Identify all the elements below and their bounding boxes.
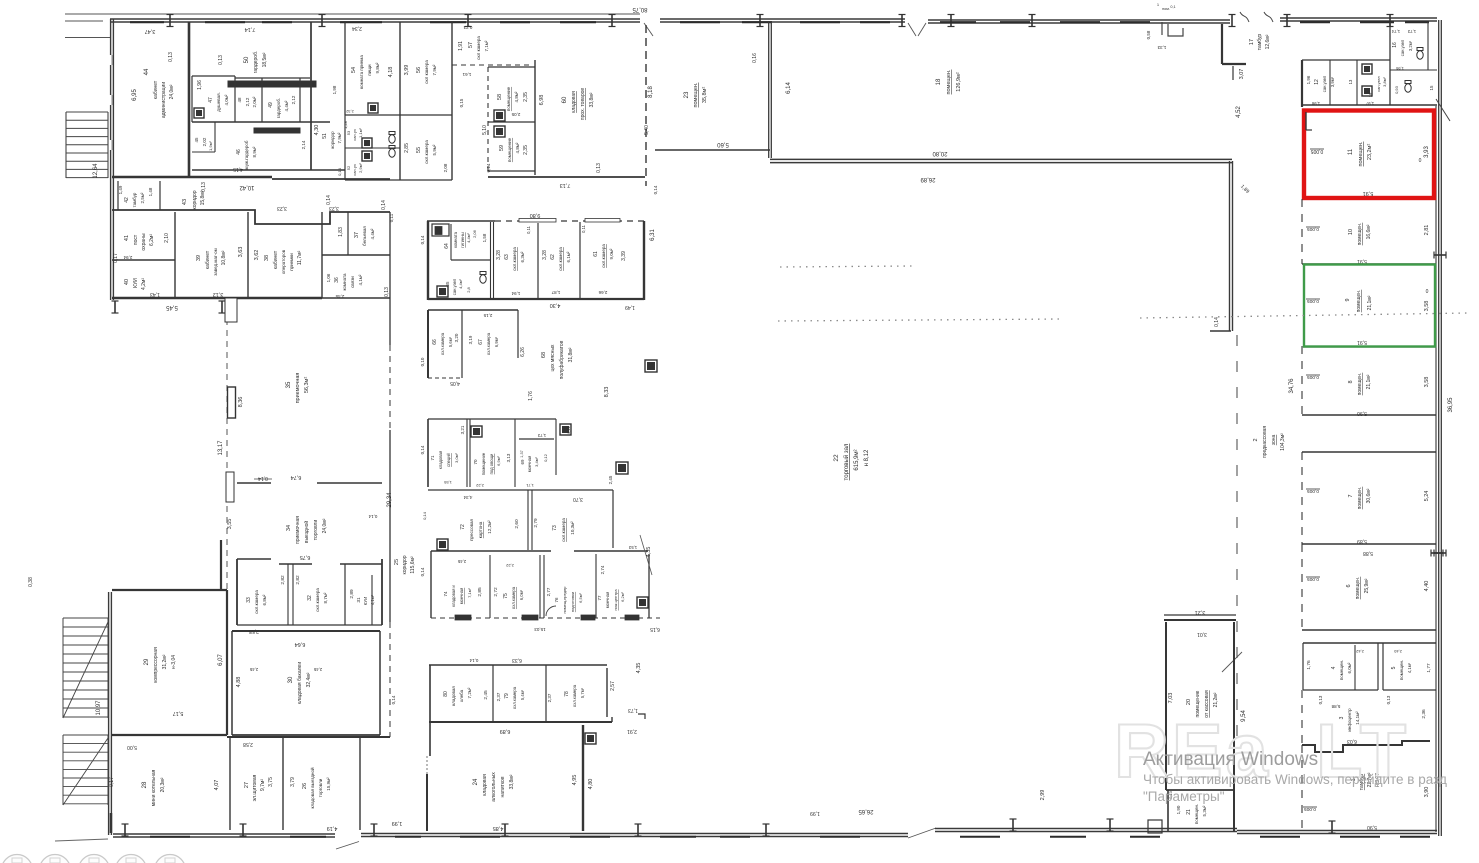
svg-text:5,60: 5,60 [717, 141, 729, 147]
svg-text:0,14: 0,14 [381, 200, 387, 210]
stairs upper-left [65, 112, 67, 178]
svg-text:42: 42 [124, 197, 130, 203]
room 65 san uzel [437, 286, 448, 297]
svg-text:5,00: 5,00 [127, 744, 137, 750]
diagonal leader near room 20 cap [1222, 652, 1242, 672]
svg-text:5,24: 5,24 [1424, 491, 1430, 502]
svg-text:5,9м²: 5,9м² [432, 144, 437, 155]
svg-text:9: 9 [1345, 298, 1351, 301]
corridor 25 west wall [389, 212, 391, 345]
svg-text:4,40: 4,40 [1424, 581, 1430, 592]
svg-text:0,14: 0,14 [420, 445, 425, 454]
svg-text:моечная: моечная [605, 592, 610, 609]
svg-text:34,76: 34,76 [1289, 378, 1295, 394]
svg-text:21,1м²: 21,1м² [1367, 295, 1373, 310]
svg-text:4,4м²: 4,4м² [370, 228, 375, 239]
svg-text:1,83: 1,83 [338, 227, 344, 237]
svg-text:2,36: 2,36 [1421, 709, 1427, 719]
svg-text:6,2м²: 6,2м² [620, 592, 625, 602]
wall corridor 43 north side [112, 176, 272, 178]
svg-text:3,55: 3,55 [227, 519, 233, 530]
svg-text:2,15: 2,15 [483, 313, 492, 318]
room 34 priemochnaja vyezdnoj torgovli [237, 482, 271, 484]
svg-text:1,94: 1,94 [511, 291, 520, 296]
svg-text:картона: картона [478, 521, 483, 538]
svg-text:3,70: 3,70 [573, 496, 583, 502]
svg-text:0,14: 0,14 [1214, 317, 1220, 327]
svg-text:4,18: 4,18 [388, 67, 394, 78]
svg-text:55: 55 [416, 147, 422, 153]
svg-text:6,1м²: 6,1м² [566, 251, 571, 262]
room 47 dushevaja [192, 75, 235, 77]
svg-text:охл.камера: охл.камера [512, 247, 517, 271]
svg-text:охл.камера: охл.камера [511, 586, 516, 609]
svg-text:помещение: помещение [481, 452, 486, 475]
svg-text:17: 17 [1249, 39, 1255, 45]
svg-text:41: 41 [124, 235, 130, 241]
svg-text:12,6м²: 12,6м² [1265, 34, 1271, 49]
svg-text:3,90: 3,90 [1424, 787, 1430, 798]
svg-text:2,45: 2,45 [608, 475, 613, 484]
svg-text:2,91: 2,91 [627, 728, 637, 734]
svg-text:0,13: 0,13 [201, 182, 207, 192]
svg-text:0,13: 0,13 [218, 55, 224, 65]
svg-text:3,47: 3,47 [145, 28, 156, 34]
room 7 [1302, 451, 1436, 453]
svg-text:10,8м²: 10,8м² [221, 250, 227, 265]
svg-text:1,91: 1,91 [458, 41, 464, 51]
svg-text:2,22: 2,22 [505, 563, 514, 568]
svg-text:6,8м²: 6,8м² [262, 594, 267, 605]
svg-text:3,39: 3,39 [621, 251, 627, 261]
svg-text:эл.щитовая: эл.щитовая [252, 774, 258, 801]
wall stub left of rooms 33 row [220, 540, 222, 590]
svg-text:1,98: 1,98 [1311, 101, 1320, 106]
svg-text:36: 36 [334, 277, 340, 283]
svg-text:напитков: напитков [500, 776, 506, 797]
svg-text:помещение: помещение [507, 137, 512, 162]
svg-text:8,7м²: 8,7м² [323, 592, 328, 603]
dimension line 80,75 along top [65, 13, 640, 15]
svg-text:душевая.: душевая. [216, 92, 221, 112]
svg-text:2,10: 2,10 [164, 233, 170, 243]
svg-text:30,6м²: 30,6м² [1366, 488, 1372, 503]
svg-text:комната: комната [342, 273, 347, 291]
svg-text:прох. товаров: прох. товаров [580, 88, 586, 120]
predkassovaja zona dashed boundary [1236, 335, 1238, 745]
room 23 pomeschenie [768, 22, 770, 158]
hatch ticks on top wall [169, 15, 171, 27]
svg-text:1,06: 1,06 [326, 273, 331, 282]
svg-text:0,38: 0,38 [28, 577, 34, 587]
svg-text:1,99: 1,99 [810, 810, 820, 816]
svg-text:4,30: 4,30 [550, 302, 561, 308]
svg-text:10,42: 10,42 [239, 184, 255, 190]
svg-text:1,87: 1,87 [551, 290, 560, 295]
svg-text:бельевая: бельевая [362, 226, 367, 246]
room 49 garderob [299, 78, 301, 122]
svg-text:29: 29 [144, 658, 150, 665]
svg-text:приемочная: приемочная [295, 516, 301, 544]
svg-text:57: 57 [468, 42, 474, 48]
window gaps on left wall [109, 55, 111, 65]
svg-text:5,91: 5,91 [1357, 258, 1367, 264]
room 55 ohl kamera [400, 114, 452, 116]
svg-text:2,5м²: 2,5м² [140, 192, 145, 203]
svg-text:5,45: 5,45 [166, 304, 178, 310]
rooms 4 and 5 [1303, 642, 1436, 644]
svg-text:6,9м²: 6,9м² [494, 336, 499, 347]
svg-text:5,90: 5,90 [1357, 410, 1367, 416]
svg-text:54: 54 [351, 67, 357, 73]
svg-text:75: 75 [503, 593, 509, 599]
svg-text:торговли: торговли [318, 778, 323, 797]
svg-text:1,73: 1,73 [537, 433, 546, 438]
svg-text:9,0м²: 9,0м² [609, 248, 614, 259]
wall bottom outer east run [935, 828, 1237, 830]
svg-text:3,28: 3,28 [496, 250, 502, 260]
svg-text:2,12: 2,12 [291, 95, 296, 104]
wall right outer [1438, 20, 1440, 836]
step diagonals at x908 [908, 828, 936, 838]
svg-text:помещен.: помещен. [1357, 487, 1363, 510]
dashed bottom of 74-77 [431, 617, 660, 619]
svg-text:кладовая: кладовая [571, 91, 577, 113]
svg-text:1,53: 1,53 [628, 545, 637, 550]
svg-text:1,49: 1,49 [625, 304, 635, 310]
svg-text:2,40: 2,40 [1393, 649, 1402, 654]
svg-text:2,8: 2,8 [466, 286, 471, 292]
sanitary cells 52 53 [345, 114, 400, 116]
svg-text:13: 13 [1348, 79, 1353, 84]
rooms 13 14 fixtures [1362, 64, 1372, 74]
svg-text:4,0м²: 4,0м² [224, 94, 229, 105]
svg-text:6,89: 6,89 [500, 728, 511, 734]
svg-text:под овощи: под овощи [489, 453, 494, 474]
svg-text:0,13: 0,13 [384, 287, 390, 297]
svg-text:6,5м²: 6,5м² [578, 593, 583, 603]
room 24 kladovaja alkogolnyh napitkov [429, 721, 612, 723]
svg-text:сан.уз: сан.уз [352, 164, 357, 176]
wall left outer rooms 40-41 [110, 180, 112, 300]
svg-text:6,74: 6,74 [291, 474, 302, 480]
wall left outer of admin block [110, 19, 112, 180]
svg-text:операторов: операторов [281, 249, 286, 274]
svg-text:0,73: 0,73 [463, 25, 472, 30]
svg-text:4: 4 [1331, 666, 1337, 669]
svg-text:тамбур: тамбур [1257, 34, 1263, 51]
svg-text:33: 33 [246, 597, 252, 603]
svg-text:104,3м²: 104,3м² [1280, 433, 1286, 451]
ground leader line bottom-left [55, 839, 108, 841]
svg-text:3,75: 3,75 [268, 777, 274, 787]
svg-text:29,34: 29,34 [387, 492, 393, 508]
svg-text:26,65: 26,65 [858, 808, 874, 814]
svg-text:3,93: 3,93 [1424, 146, 1430, 158]
svg-text:2,32: 2,32 [346, 109, 353, 113]
svg-text:кабинет: кабинет [153, 80, 159, 99]
svg-text:47: 47 [208, 97, 214, 103]
svg-text:8,9м²: 8,9м² [252, 146, 257, 157]
svg-text:63: 63 [504, 254, 510, 260]
svg-text:3,58: 3,58 [1424, 301, 1430, 312]
svg-text:18,5м²: 18,5м² [262, 52, 268, 67]
svg-text:1,71: 1,71 [525, 483, 534, 488]
wall under 47-49 row [192, 121, 330, 123]
svg-text:2,02: 2,02 [202, 137, 207, 146]
room 44 kabinet administracii [188, 22, 191, 177]
svg-text:8,36: 8,36 [238, 397, 244, 408]
svg-text:7,9м²: 7,9м² [432, 64, 437, 75]
svg-text:специй: специй [446, 452, 451, 466]
svg-text:34: 34 [286, 525, 292, 531]
svg-text:64: 64 [444, 243, 450, 249]
svg-text:5,6м²: 5,6м² [448, 336, 453, 347]
svg-text:приемочная: приемочная [295, 373, 301, 404]
svg-text:0: 0 [1419, 158, 1422, 164]
svg-text:4,4м²: 4,4м² [284, 100, 289, 111]
svg-text:8: 8 [1348, 380, 1354, 383]
svg-text:5: 5 [1391, 666, 1397, 669]
svg-text:2,42: 2,42 [1355, 649, 1364, 654]
svg-text:0,1: 0,1 [1170, 5, 1175, 9]
svg-text:6,15: 6,15 [650, 626, 660, 632]
svg-text:охраны: охраны [141, 233, 147, 251]
svg-text:2,77: 2,77 [546, 587, 551, 596]
svg-text:74: 74 [443, 591, 448, 597]
svg-text:6,33: 6,33 [512, 657, 522, 663]
wall top outer west segment [110, 18, 640, 20]
svg-text:3,9м²: 3,9м² [1330, 76, 1335, 87]
wall left outer lower-left block [108, 592, 110, 835]
svg-text:16,6м²: 16,6м² [1366, 224, 1372, 239]
svg-text:60: 60 [562, 96, 568, 103]
svg-text:5,4м²: 5,4м² [520, 689, 525, 700]
svg-text:сан.узел: сан.узел [452, 278, 457, 295]
dotted line row B [778, 319, 1062, 321]
svg-text:32: 32 [307, 595, 313, 601]
rooms 66 67 ohl kamery [428, 309, 518, 311]
svg-text:2,37: 2,37 [547, 693, 552, 702]
svg-text:20: 20 [1186, 699, 1192, 705]
svg-text:комната приема: комната приема [359, 55, 364, 89]
svg-text:5,40: 5,40 [644, 125, 650, 135]
svg-text:подготовки: подготовки [570, 592, 575, 612]
room 8 [1301, 346, 1303, 415]
svg-text:70: 70 [473, 459, 478, 465]
svg-text:71: 71 [430, 455, 435, 461]
svg-text:4,8м²: 4,8м² [514, 91, 519, 102]
wall south of office row [112, 297, 322, 300]
svg-text:4,19: 4,19 [327, 825, 338, 831]
svg-text:19: 19 [1368, 92, 1373, 97]
svg-text:0,14: 0,14 [368, 514, 377, 519]
svg-text:1,61: 1,61 [462, 72, 471, 77]
svg-text:1,96: 1,96 [197, 80, 203, 90]
svg-text:77: 77 [597, 595, 602, 601]
svg-text:37: 37 [354, 232, 360, 238]
svg-text:25,9м²: 25,9м² [1364, 578, 1370, 593]
svg-text:1,48: 1,48 [148, 187, 153, 196]
svg-text:15,03: 15,03 [534, 627, 546, 632]
svg-text:10: 10 [1348, 229, 1354, 235]
svg-text:58: 58 [497, 94, 503, 100]
svg-text:2,35: 2,35 [523, 92, 529, 102]
svg-text:0,17: 0,17 [113, 253, 119, 263]
svg-text:615,9м²: 615,9м² [854, 449, 860, 470]
svg-text:25: 25 [394, 559, 400, 565]
svg-text:0,58: 0,58 [1146, 30, 1151, 39]
svg-text:4,35: 4,35 [636, 663, 642, 674]
svg-text:муж.гардероб: муж.гардероб [244, 140, 249, 169]
svg-text:помещ.предпр: помещ.предпр [562, 586, 567, 614]
hatch ticks on bottom wall [124, 824, 126, 836]
svg-text:5,89: 5,89 [1357, 538, 1367, 544]
svg-text:6,3м²: 6,3м² [520, 251, 525, 262]
svg-text:2,05: 2,05 [511, 112, 520, 117]
svg-text:2,08: 2,08 [443, 163, 448, 172]
svg-text:6,64: 6,64 [295, 641, 306, 647]
svg-text:помещен.: помещен. [1356, 290, 1362, 313]
svg-text:31: 31 [356, 597, 362, 603]
svg-text:3,99: 3,99 [404, 65, 410, 76]
svg-text:0,14: 0,14 [420, 235, 425, 244]
svg-text:6,98: 6,98 [539, 95, 545, 106]
svg-text:сан.узел: сан.узел [1376, 75, 1381, 91]
svg-text:охл.камера: охл.камера [561, 518, 566, 542]
svg-text:0,14: 0,14 [337, 167, 342, 176]
room 60 kladovaja [534, 60, 536, 175]
svg-text:0,14: 0,14 [420, 567, 425, 576]
wall top right-wing segment [1280, 17, 1437, 19]
svg-text:3,07: 3,07 [1239, 69, 1245, 80]
svg-text:23,2м²: 23,2м² [1367, 144, 1373, 160]
svg-text:1,76: 1,76 [528, 391, 534, 401]
svg-text:12,64: 12,64 [93, 163, 99, 179]
svg-text:н 8,12: н 8,12 [864, 449, 870, 466]
svg-text:связи: связи [350, 276, 355, 288]
svg-text:10,3м²: 10,3м² [570, 521, 575, 535]
green highlight room 9 [1303, 346, 1436, 348]
wall top outer east segment [928, 19, 1230, 21]
door swing at top middle opening [644, 23, 653, 36]
svg-text:5,7м²: 5,7м² [580, 687, 585, 698]
svg-text:21,2м²: 21,2м² [1213, 692, 1219, 707]
svg-text:11,7м²: 11,7м² [297, 250, 303, 265]
svg-text:3,28: 3,28 [542, 250, 548, 260]
svg-text:0,14: 0,14 [258, 475, 268, 481]
svg-text:полуфабрикатов: полуфабрикатов [559, 340, 565, 379]
svg-text:2,99: 2,99 [1040, 790, 1046, 801]
svg-text:0,11: 0,11 [526, 225, 531, 234]
svg-text:16: 16 [1392, 42, 1398, 48]
sanitary block walls top right [1301, 60, 1303, 107]
svg-text:21: 21 [1186, 809, 1192, 815]
svg-text:торговый зал: торговый зал [843, 443, 850, 480]
svg-text:охл.камера: охл.камера [558, 247, 563, 271]
svg-text:56,3м²: 56,3м² [304, 377, 310, 393]
svg-text:2,0м²: 2,0м² [252, 96, 257, 107]
room 37 beljevaja [347, 212, 349, 255]
wardrobe counter bar room 50 [228, 81, 316, 87]
svg-text:4,52: 4,52 [1236, 106, 1242, 118]
diagonal leader top right corner [1436, 99, 1450, 121]
svg-text:охл.камера: охл.камера [315, 588, 320, 612]
svg-text:пост: пост [133, 234, 139, 245]
svg-text:40: 40 [124, 279, 130, 285]
svg-text:3,20: 3,20 [454, 333, 459, 342]
svg-text:73: 73 [552, 525, 558, 531]
svg-text:охл камера: охл камера [424, 60, 429, 84]
svg-text:7,1м²: 7,1м² [467, 588, 472, 598]
node dashed boundary west of receiving area [226, 308, 228, 592]
door swing on bottom wall at x340 [336, 842, 359, 850]
svg-text:2,45: 2,45 [249, 667, 258, 672]
svg-text:мини котельная: мини котельная [151, 769, 157, 806]
svg-text:6,2м²: 6,2м² [149, 234, 155, 246]
svg-text:зона: зона [1271, 435, 1277, 446]
svg-text:35,8м²: 35,8м² [702, 87, 708, 103]
svg-text:кладовая выездной: кладовая выездной [309, 767, 315, 808]
room 54 komnata priema pischi [344, 22, 346, 115]
svg-text:3,0м²: 3,0м² [454, 453, 459, 463]
svg-text:моечная: моечная [527, 456, 532, 473]
svg-text:6,9м²: 6,9м² [496, 456, 501, 466]
room 45 small [214, 122, 216, 152]
social icon circles bottom left [2, 855, 33, 863]
rooms 74-77 row [431, 550, 551, 552]
svg-text:45: 45 [194, 137, 199, 143]
corridor piece between rooms 30 and 24 [389, 622, 391, 737]
svg-text:кабинет: кабинет [205, 250, 211, 269]
svg-text:26,89: 26,89 [920, 176, 936, 182]
svg-text:4,07: 4,07 [214, 780, 220, 791]
svg-text:охл.камера: охл.камера [601, 244, 606, 268]
svg-text:7: 7 [1348, 494, 1354, 497]
svg-text:гардероб.: гардероб. [276, 98, 281, 118]
svg-text:7,2м²: 7,2м² [467, 687, 472, 698]
svg-text:кладовая бакалеи: кладовая бакалеи [297, 662, 303, 704]
svg-text:2,12: 2,12 [245, 97, 250, 106]
svg-text:1,77: 1,77 [1426, 663, 1432, 673]
svg-text:2,57: 2,57 [610, 681, 616, 691]
svg-text:2,35: 2,35 [523, 145, 529, 155]
svg-text:5,90: 5,90 [1367, 824, 1377, 830]
svg-text:0,12: 0,12 [566, 425, 571, 434]
svg-text:61: 61 [593, 251, 599, 257]
svg-text:76: 76 [554, 597, 559, 603]
svg-text:13,17: 13,17 [218, 440, 224, 456]
svg-text:3,63: 3,63 [238, 247, 244, 258]
svg-text:3,23: 3,23 [277, 205, 287, 211]
svg-text:0,11: 0,11 [581, 224, 586, 233]
svg-text:н-3,04: н-3,04 [171, 655, 177, 669]
svg-text:15: 15 [1429, 85, 1434, 91]
svg-text:2,9м²: 2,9м² [358, 163, 363, 173]
room 10 [1301, 199, 1303, 264]
svg-text:4,85: 4,85 [493, 825, 504, 831]
svg-text:6,0м²: 6,0м² [519, 589, 524, 600]
svg-text:приемки: приемки [289, 253, 294, 271]
svg-text:46: 46 [236, 149, 242, 155]
svg-text:43: 43 [182, 199, 188, 205]
svg-text:1,95: 1,95 [1395, 66, 1404, 71]
svg-text:пом.: пом. [1162, 7, 1170, 11]
svg-text:2,82: 2,82 [295, 575, 301, 585]
room 30 kladovaja bakalei [232, 630, 380, 632]
svg-text:1,33: 1,33 [1157, 45, 1166, 50]
svg-text:компрессорная: компрессорная [153, 647, 159, 683]
